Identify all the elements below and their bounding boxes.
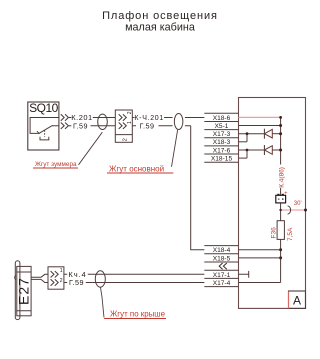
pin row shelf lines X18-4..X17-4 [204, 246, 238, 287]
svg-text:1: 1 [127, 121, 133, 124]
connector pin chevrons at SQ10 output Г.59 [61, 123, 69, 129]
svg-text:2: 2 [60, 278, 63, 284]
svg-text:X18-4: X18-4 [213, 247, 231, 254]
svg-text:X17-6: X17-6 [213, 147, 231, 154]
lamp E27 housing [17, 266, 31, 315]
wire to terminal 30 [281, 209, 306, 211]
svg-text:+: + [284, 190, 287, 196]
leader to zummer harness oval [79, 132, 103, 165]
switch SQ10 contact wiring [30, 118, 59, 134]
svg-text:Жгут по крыше: Жгут по крыше [110, 310, 166, 319]
svg-text:Г.59: Г.59 [73, 121, 88, 130]
twin wire from lamp [31, 274, 48, 282]
fuse F36 [277, 221, 284, 240]
switch SQ10 box [28, 102, 59, 150]
wire X18-4 to bus [239, 249, 281, 251]
connector block X1 [115, 110, 132, 142]
connector block X1 pin chevrons row 2 [119, 123, 127, 129]
svg-text:2: 2 [123, 138, 129, 141]
connector pin chevrons at SQ10 output К.201 [61, 114, 69, 120]
battery symbol [277, 194, 279, 196]
svg-text:7,5А: 7,5А [287, 227, 294, 241]
wire X17-3 [239, 133, 265, 135]
wire Г.59 roof [64, 282, 205, 284]
wire Кч.4 [64, 273, 205, 275]
svg-text:X17-3: X17-3 [213, 131, 231, 138]
jumper X17-6/X18-15 [246, 150, 248, 158]
reserve pin chevron symbol [219, 263, 227, 269]
connector block X1 pin chevrons row 1 [119, 114, 127, 120]
leader to roof harness oval [101, 287, 105, 317]
lamp base notch [15, 276, 16, 280]
svg-text:X5-1: X5-1 [215, 123, 229, 130]
svg-text:2: 2 [127, 111, 133, 114]
svg-text:X17-4: X17-4 [213, 280, 231, 287]
wire X5-1 to bus [239, 125, 281, 127]
switch SQ10 pushbutton actuator [44, 130, 46, 137]
svg-text:SQ10: SQ10 [29, 101, 59, 115]
svg-text:A: A [293, 294, 301, 308]
diode VD1 [263, 129, 265, 139]
wire Г.59 (main harness) [132, 126, 204, 250]
wire X17-4 to bus [239, 282, 281, 284]
svg-text:Жгут зуммера: Жгут зуммера [35, 161, 77, 168]
junction dot at panel edge [304, 209, 307, 212]
lamp connector chevrons pin 1 [51, 271, 59, 277]
bus junction dots [279, 116, 282, 119]
harness oval (main harness) [174, 114, 183, 130]
bus К.4(86) vertical [280, 117, 282, 282]
svg-text:К.4(86): К.4(86) [278, 167, 285, 188]
svg-text:X18-15: X18-15 [211, 156, 233, 163]
harness oval (zummer harness) [98, 114, 108, 129]
svg-text:Г.59: Г.59 [139, 121, 154, 130]
svg-text:X18-3: X18-3 [213, 139, 231, 146]
wire X18-3 [239, 141, 248, 143]
svg-text:Г.59: Г.59 [69, 278, 84, 287]
harness oval (roof harness) [95, 271, 105, 287]
svg-text:1: 1 [60, 268, 63, 274]
svg-text:Жгут основной: Жгут основной [109, 164, 164, 173]
lamp E27 capsule [15, 261, 20, 320]
wire X17-1 stub [239, 271, 249, 278]
pin row shelf lines X18-6..X18-15 [204, 113, 238, 162]
wire Г.59 (zummer harness) [69, 125, 116, 127]
switch SQ10 movable arm [37, 125, 53, 133]
wire К.201 [69, 117, 116, 119]
wire X17-6 [239, 149, 265, 151]
svg-text:малая кабина: малая кабина [125, 22, 195, 34]
wire К-Ч.201 [132, 117, 204, 119]
wire X18-15 [239, 157, 248, 159]
lamp unit panel [239, 98, 306, 309]
svg-text:E27: E27 [16, 277, 32, 305]
jumper X17-3/X18-3 [246, 134, 248, 142]
diode VD2 [263, 145, 265, 155]
svg-text:X18-6: X18-6 [213, 115, 231, 122]
lamp connector chevrons pin 2 [51, 279, 59, 285]
detachable contact arc [288, 206, 291, 214]
lamp connector block [48, 267, 64, 289]
svg-text:Плафон освещения: Плафон освещения [102, 10, 218, 22]
svg-text:X17-1: X17-1 [213, 272, 231, 279]
lamp contact lines [16, 272, 31, 311]
wire X18-5 to bus [239, 257, 281, 259]
svg-text:X18-5: X18-5 [213, 255, 231, 262]
wire X18-6 to bus (red К.4) [239, 116, 281, 118]
svg-text:30': 30' [294, 201, 302, 207]
svg-text:F36: F36 [271, 227, 278, 239]
module A box [289, 291, 306, 308]
leader to main harness oval [172, 130, 178, 167]
